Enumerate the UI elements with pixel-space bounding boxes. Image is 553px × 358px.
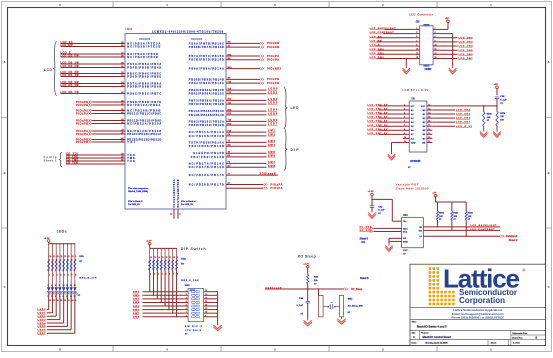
U601 note I/Os in Bank 5	[128, 201, 143, 206]
wire net XO_TMS	[66, 159, 125, 162]
svg-text:10: 10	[173, 257, 175, 259]
ground R598	[483, 130, 485, 132]
svg-text:10K: 10K	[439, 216, 443, 218]
wire net LCD_DB4 from U8	[432, 109, 470, 112]
svg-text:13: 13	[428, 108, 430, 110]
capacitor C93	[370, 199, 385, 215]
wire POT Vin feed	[372, 199, 402, 221]
svg-text:9: 9	[404, 133, 405, 135]
wire net LCD_RW to J10	[370, 41, 415, 43]
svg-text:Sheet 8: Sheet 8	[360, 277, 369, 280]
wire net PIOxPA lower row 1	[226, 182, 283, 186]
svg-text:16: 16	[150, 257, 152, 259]
svg-text:12: 12	[64, 256, 66, 258]
svg-text:PIOxNB: PIOxNB	[267, 45, 279, 49]
switch SW2 body	[188, 289, 204, 322]
svg-text:6: 6	[186, 308, 187, 310]
wire net PIOxPB left row 2	[76, 103, 125, 107]
wire net SW3 to SW2 row 3	[133, 297, 188, 300]
wire net LCD_DB6 from U8	[432, 118, 470, 120]
ground C93	[371, 211, 373, 213]
svg-text:+5V: +5V	[445, 18, 449, 20]
svg-text:U94: U94	[403, 214, 408, 217]
svg-text:10: 10	[205, 312, 207, 314]
svg-text:+3.3V: +3.3V	[303, 264, 309, 266]
svg-text:8: 8	[75, 275, 76, 277]
svg-text:4: 4	[186, 300, 187, 303]
wire net LED7 to LED D8	[38, 298, 75, 336]
svg-text:7: 7	[404, 125, 405, 127]
svg-text:C: C	[548, 285, 550, 289]
svg-text:CTS 206-8: CTS 206-8	[185, 330, 202, 332]
wire net PIOxPB left row 5	[76, 118, 125, 122]
wire net PIOxPB left row 1	[76, 100, 125, 104]
wire net SW8 from U601	[226, 165, 276, 168]
svg-text:NC/PB11A/PB10A: NC/PB11A/PB10A	[189, 131, 224, 134]
svg-text:Date:: Date:	[412, 341, 418, 344]
wire net LED1 to LED D2	[38, 298, 53, 315]
title block applications text	[451, 308, 504, 319]
svg-text:4: 4	[51, 284, 52, 287]
wire net LCD_DB_7W to U601	[61, 91, 126, 94]
svg-text:XO Sleep: XO Sleep	[298, 254, 317, 258]
resistor R576	[496, 106, 506, 130]
svg-text:Project:: Project:	[421, 332, 429, 335]
svg-text:7: 7	[72, 275, 73, 277]
wire net PIOxPA left row 8	[76, 132, 125, 136]
svg-text:PB13D/PB13D/PB11D: PB13D/PB13D/PB11D	[127, 138, 161, 141]
wire net PIOxPB right row 7	[226, 81, 279, 85]
ic U8 level shifter body	[409, 101, 427, 152]
svg-text:1: 1	[150, 273, 151, 275]
svg-text:VCC: VCC	[421, 106, 426, 108]
LED D6	[66, 285, 71, 302]
label Config Sheet 1	[44, 155, 57, 163]
svg-text:21: 21	[428, 141, 430, 143]
svg-text:5: 5	[165, 273, 166, 275]
ground U94	[388, 244, 390, 246]
wire net LED5 from U601	[226, 113, 278, 116]
wire net SW8 to SW2 row 8	[133, 315, 188, 318]
wire net LCD_DB1 to J10	[370, 53, 415, 55]
svg-text:9: 9	[205, 315, 206, 317]
svg-text:3: 3	[158, 273, 159, 275]
svg-text:XO_Sleep: XO_Sleep	[351, 288, 363, 291]
svg-text:For 3E3_3V: For 3E3_3V	[128, 204, 140, 206]
svg-text:PB9D/PB58A/PB13D: PB9D/PB58A/PB13D	[189, 89, 224, 92]
svg-text:10K: 10K	[487, 117, 491, 119]
svg-text:PB7C/PB58A/PB12A: PB7C/PB58A/PB12A	[189, 99, 224, 102]
svg-text:PIOxPB: PIOxPB	[76, 140, 88, 144]
U601 bottom rotated pin names	[173, 179, 180, 207]
wire net LCD_DB6_5V to U8	[367, 129, 402, 131]
U601 left pin numbers	[121, 42, 124, 162]
svg-text:14: 14	[57, 299, 59, 302]
svg-text:J10: J10	[416, 21, 421, 24]
connector J10 body	[420, 24, 433, 67]
svg-text:SW DIP-8: SW DIP-8	[185, 326, 203, 328]
svg-text:2: 2	[186, 294, 187, 296]
svg-text:This data sequence: This data sequence	[128, 187, 149, 190]
svg-text:7: 7	[173, 273, 174, 275]
svg-text:PIOxPB: PIOxPB	[267, 77, 279, 81]
resistor R20	[307, 275, 319, 290]
svg-text:0_1uF: 0_1uF	[500, 100, 507, 102]
svg-text:PIOxPB: PIOxPB	[267, 81, 279, 85]
svg-text:HDM2: HDM2	[425, 68, 432, 71]
title block Size and Project row	[412, 330, 452, 339]
svg-text:NC/JTAGENB/PB4B: NC/JTAGENB/PB4B	[177, 179, 180, 207]
wire RN2 leg 1 to switch row 1	[149, 270, 150, 292]
ground J10 right	[452, 66, 454, 68]
svg-text:16: 16	[205, 290, 207, 292]
svg-text:16: 16	[428, 121, 430, 123]
wire net PIOxPB left row 10	[76, 140, 125, 144]
svg-text:DIP: DIP	[291, 148, 300, 152]
svg-text:15: 15	[205, 294, 207, 296]
wire net LCD_DB3_5V to U8	[367, 117, 402, 119]
wire RN2 leg 4 to switch row 4	[161, 270, 162, 303]
svg-text:1: 1	[49, 275, 50, 277]
wire net PIOxPB right row 6	[226, 77, 279, 81]
title block divider under logo	[410, 307, 546, 309]
svg-text:LCD 5V to 3.3V: LCD 5V to 3.3V	[402, 88, 428, 92]
svg-text:PB14B/PB16B/PB14D: PB14B/PB16B/PB14D	[189, 114, 224, 117]
wire net LCD_BACKLIGHT to J10	[370, 27, 415, 30]
svg-text:Title:: Title:	[412, 321, 417, 324]
capacitor C94	[297, 289, 310, 319]
wire net PIOxPB left row 9	[76, 137, 125, 141]
wire net LCD_DB3 from J10	[438, 42, 473, 44]
svg-text:4: 4	[162, 272, 163, 275]
svg-text:A: A	[4, 60, 6, 64]
svg-text:15: 15	[416, 57, 418, 59]
svg-text:5: 5	[186, 305, 187, 307]
svg-text:Corporation: Corporation	[459, 296, 505, 305]
wire net PIOxNB right row 2	[226, 45, 279, 49]
connector J10 left pin stubs and numbers	[415, 28, 420, 59]
svg-text:9: 9	[416, 45, 417, 47]
wire net LCD_DB7_5V to U8	[367, 133, 402, 135]
switch SW2 internal elements	[190, 290, 200, 318]
wire net LCD_RS to J10	[370, 36, 415, 38]
power +3.3V POT	[368, 191, 374, 200]
ic U601 body	[125, 34, 226, 210]
svg-text:Board Rev: Board Rev	[512, 336, 523, 339]
svg-text:Sheet: Sheet	[491, 341, 497, 344]
wire net DataInput from U94	[423, 235, 518, 242]
svg-text:NC/PB3D/PB3D: NC/PB3D/PB3D	[127, 56, 158, 59]
wire LED power rail	[49, 243, 76, 244]
wire net LCD_DB_1W to U601	[61, 62, 126, 65]
svg-text:XO_Sleep_SW: XO_Sleep_SW	[348, 305, 364, 307]
svg-text:PB58B/PB8B/PB14B: PB58B/PB8B/PB14B	[189, 78, 224, 81]
svg-text:PIOxPA: PIOxPA	[76, 111, 88, 115]
wire net PIOxPA right row 4	[226, 58, 279, 62]
capacitor C98	[495, 96, 507, 106]
svg-text:12: 12	[205, 305, 207, 307]
svg-text:13: 13	[60, 300, 62, 302]
svg-text:Slave Addr 1010000: Slave Addr 1010000	[396, 186, 429, 190]
wire J10 left ground bus	[406, 58, 407, 66]
svg-text:PB7B/PB7D/PB15D: PB7B/PB7D/PB15D	[189, 59, 224, 62]
svg-text:2: 2	[154, 273, 155, 275]
svg-text:PB4/PB9/PB15B: PB4/PB9/PB15B	[191, 156, 224, 159]
svg-text:8: 8	[435, 40, 436, 42]
wire net LED4 from U601	[226, 109, 278, 112]
ic U8 left pin stubs and numbers	[403, 104, 410, 143]
svg-text:14: 14	[70, 284, 72, 287]
resistor R166	[436, 202, 444, 228]
svg-text:PIOxPA: PIOxPA	[271, 186, 283, 190]
svg-text:C: C	[4, 285, 6, 289]
svg-text:6: 6	[169, 273, 170, 275]
wire net PIOxNR3 right row 5	[226, 66, 282, 70]
svg-text:11: 11	[68, 256, 70, 258]
wire net LED6 from U601	[226, 119, 278, 122]
resistor R167	[451, 202, 459, 231]
svg-text:8: 8	[186, 315, 187, 317]
svg-text:PB6C/PB15C/PB12A: PB6C/PB15C/PB12A	[189, 120, 224, 123]
power +5V POT pullups	[432, 192, 466, 202]
svg-text:NC/PB10A/PB8A: NC/PB10A/PB8A	[127, 104, 160, 107]
wire net LCD_DB_6W to U601	[61, 84, 126, 87]
svg-text:PB58B/PB7B/PB16D: PB58B/PB7B/PB16D	[189, 46, 224, 49]
Lattice logo wordmark	[443, 264, 526, 294]
wire net LCD_DB7 from J10	[438, 58, 473, 60]
svg-text:4: 4	[404, 112, 405, 115]
svg-text:15: 15	[428, 117, 430, 119]
svg-text:Sheet 1: Sheet 1	[44, 159, 57, 163]
wire net LED1 from U601	[226, 91, 278, 94]
U601 note text data sequence	[128, 187, 149, 193]
svg-text:PIOxPA: PIOxPA	[271, 182, 283, 186]
svg-text:7: 7	[416, 40, 417, 42]
wire net SW7 from U601	[226, 161, 276, 164]
brace LCD group	[54, 42, 57, 96]
title block schematic rev cell	[511, 330, 546, 345]
wire net LED6 to LED D7	[38, 298, 72, 332]
LED D3	[54, 285, 59, 302]
svg-text:3: 3	[57, 275, 58, 277]
svg-text:PIOxPA: PIOxPA	[76, 132, 88, 136]
svg-text:13: 13	[162, 257, 164, 259]
wire net SW1 from U601	[226, 130, 276, 133]
wire U8 VCC rail	[432, 105, 497, 106]
svg-text:I2C: I2C	[362, 241, 366, 244]
svg-text:A: A	[548, 60, 550, 64]
svg-text:4: 4	[435, 31, 436, 34]
svg-text:PIOxPA: PIOxPA	[267, 58, 279, 62]
wire net XO_TDI	[66, 153, 125, 156]
border zone letters sides	[4, 60, 550, 289]
U601 right pin names	[189, 42, 224, 186]
svg-text:RST: RST	[403, 250, 408, 252]
wire U94 A0 GND to ground	[389, 238, 402, 243]
svg-text:PB6D/PB15D/PB12B: PB6D/PB15D/PB12B	[189, 124, 224, 127]
label RN1	[79, 256, 97, 280]
svg-text:PB7B/PB8B/PB6B: PB7B/PB8B/PB6B	[127, 85, 161, 88]
svg-text:11: 11	[205, 308, 207, 310]
svg-text:3: 3	[416, 32, 417, 34]
title block frame	[410, 264, 546, 345]
svg-text:For 3E3_3V: For 3E3_3V	[181, 204, 193, 206]
wire SW2 outputs to ground bus	[204, 290, 218, 325]
wire net LCD_DB0_5V to U8	[367, 105, 402, 107]
LED D7	[69, 284, 74, 302]
ic U8 pin names	[411, 106, 426, 145]
border zone dividers bottom	[113, 346, 437, 352]
svg-text:PB14A/PB16A/PB14C: PB14A/PB16A/PB14C	[189, 110, 224, 113]
border zone dividers top	[113, 2, 437, 8]
wire net SW5 from U601	[226, 151, 276, 154]
svg-text:6: 6	[435, 36, 436, 38]
wire net LED0 from U601	[226, 88, 278, 91]
svg-text:11: 11	[169, 257, 171, 259]
wire net PIOxPA left row 3	[76, 108, 125, 112]
svg-text:PB8A/PB8A/PB14A: PB8A/PB8A/PB14A	[189, 68, 224, 71]
border zone dividers sides	[2, 118, 552, 228]
svg-text:PB11C/PB11C/PB9C: PB11C/PB11C/PB9C	[127, 112, 161, 115]
wire net LED3 to LED D4	[38, 298, 60, 322]
power +3.3V LEDs	[44, 238, 50, 244]
svg-text:9: 9	[177, 257, 178, 259]
svg-text:NC/PB17B/PB16D: NC/PB17B/PB16D	[189, 166, 224, 169]
wire net LCD_BACKLIGHT from U94	[423, 224, 500, 227]
ic U94 pin names	[403, 221, 423, 243]
wire net LCD_DB1_5V to U8	[367, 109, 402, 111]
svg-text:Sheet 5: Sheet 5	[360, 238, 369, 241]
wire net SW2 to SW2 row 2	[133, 294, 188, 297]
svg-text:PIOxNB: PIOxNB	[267, 41, 279, 45]
wire net LCD_DB_3W to U601	[61, 71, 126, 74]
wire net LCD_DB_0W to U601	[61, 55, 126, 58]
svg-text:NC/PB12A/PB10A: NC/PB12A/PB10A	[127, 122, 161, 125]
svg-text:10: 10	[435, 45, 437, 47]
svg-text:BE: BE	[422, 142, 426, 144]
wire net LCD_DB2 from J10	[438, 37, 473, 39]
U601 note I/Os in Bank 4	[181, 200, 196, 206]
title block divider above size row	[410, 329, 546, 331]
svg-text:12: 12	[435, 49, 437, 51]
svg-text:2: 2	[435, 28, 436, 30]
svg-text:LCD_Connector: LCD_Connector	[409, 13, 434, 17]
svg-text:13: 13	[60, 256, 62, 258]
border zone numbers bottom	[59, 347, 492, 351]
wire net LCD_E to J10	[370, 45, 415, 47]
wire net XOSleepN from U601	[226, 173, 278, 176]
svg-text:15: 15	[53, 300, 55, 302]
svg-text:PB82/PB58A/PB12C: PB82/PB58A/PB12C	[189, 93, 224, 96]
svg-text:2: 2	[404, 104, 405, 106]
wire net LCD_E to U601	[61, 52, 126, 55]
wire net LCD_DB5 from U8	[432, 114, 470, 116]
label SW2 part	[185, 326, 203, 335]
ground SW2 bus	[213, 325, 221, 331]
svg-text:10K: 10K	[500, 116, 504, 118]
wire net LCD_DB7 from U8	[432, 122, 470, 124]
wire RN2 leg 6 to switch row 6	[168, 270, 169, 310]
svg-text:19: 19	[428, 133, 430, 135]
svg-text:3: 3	[404, 108, 405, 110]
svg-text:TCK: TCK	[127, 160, 135, 163]
wire net LCD_DB_2W to U601	[61, 65, 126, 68]
svg-text:12: 12	[428, 104, 430, 106]
svg-text:RN2_8_10K: RN2_8_10K	[181, 280, 198, 282]
svg-text:20: 20	[428, 137, 430, 139]
svg-text:SW3: SW3	[348, 299, 354, 301]
svg-text:10: 10	[404, 137, 406, 139]
power +3.3V XO Sleep	[303, 264, 309, 275]
svg-text:6: 6	[404, 121, 405, 123]
LED D5	[62, 285, 67, 302]
resistor R598	[483, 106, 493, 130]
svg-text:PB9/PB58/PB16B: PB9/PB58/PB16B	[189, 145, 224, 148]
wire net XO_SCL to U94	[360, 230, 402, 233]
wire net LED7 from U601	[226, 123, 278, 126]
wire RN2 leg 2 to switch row 2	[153, 270, 154, 296]
svg-text:13: 13	[416, 53, 418, 55]
brace LED group	[284, 88, 287, 129]
svg-text:PB6A/PB7B/PB16C: PB6A/PB7B/PB16C	[189, 42, 224, 45]
wire RN2 leg 7 to switch row 7	[172, 270, 173, 314]
power +5V U8 rail	[494, 84, 499, 95]
svg-text:7: 7	[186, 312, 187, 314]
svg-text:NC/PB2B/PTE3B: NC/PB2B/PTE3B	[127, 45, 160, 48]
wire net LCD_RS to U601	[61, 41, 126, 44]
svg-text:PB6D/PB6D/PB5D: PB6D/PB6D/PB5D	[127, 75, 161, 78]
power +5V J10	[438, 18, 449, 30]
svg-text:14: 14	[158, 256, 160, 259]
svg-text:B: B	[548, 171, 550, 175]
U601 bottom pin JTAGENB stub	[178, 209, 181, 219]
svg-text:3: 3	[186, 297, 187, 299]
svg-text:PB13C/PB13C/PB11C: PB13C/PB13C/PB11C	[127, 133, 161, 136]
title block Title row	[412, 321, 448, 329]
wire net LCD_DB2 to J10	[370, 57, 415, 59]
U601 left pin names	[127, 42, 161, 162]
svg-text:RN1: RN1	[79, 256, 84, 258]
svg-text:B: B	[413, 335, 415, 339]
svg-text:NC/PB18B/PB17D: NC/PB18B/PB17D	[189, 183, 224, 186]
wire DIP power rail	[150, 248, 177, 249]
svg-text:11: 11	[68, 300, 70, 302]
title block Date row	[412, 340, 521, 346]
wire J10 right ground bus	[438, 34, 453, 66]
wire net SW1 to SW2 row 1	[133, 290, 188, 293]
svg-text:16: 16	[49, 300, 51, 302]
svg-text:10: 10	[72, 256, 74, 258]
border zone numbers top	[59, 3, 492, 7]
svg-text:16: 16	[435, 57, 437, 59]
svg-text:PB4B/PB5B/PB4B: PB4B/PB5B/PB4B	[127, 66, 161, 69]
svg-text:6: 6	[55, 285, 56, 287]
label U8 part CD4504B	[408, 160, 421, 169]
ground C94	[307, 319, 309, 321]
power +3.3V DIP	[146, 241, 152, 249]
svg-text:PIOxNR3: PIOxNR3	[267, 66, 282, 70]
brace Config group	[60, 153, 63, 167]
svg-text:NC/PB17A/PB16C: NC/PB17A/PB16C	[189, 162, 224, 165]
svg-text:9: 9	[75, 300, 76, 302]
wire net SW5 to SW2 row 5	[133, 305, 188, 308]
svg-text:SCL: SCL	[403, 231, 408, 233]
svg-text:PIOxPB: PIOxPB	[76, 103, 88, 107]
switch SW3 pushbutton	[319, 289, 344, 317]
svg-text:10K: 10K	[454, 216, 458, 218]
svg-text:8: 8	[404, 129, 405, 131]
svg-text:5: 5	[404, 117, 405, 119]
